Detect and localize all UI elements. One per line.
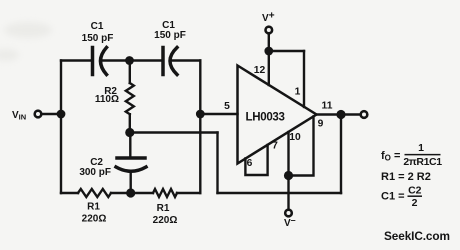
resistor R2 (126, 83, 134, 114)
svg-text:220Ω: 220Ω (82, 214, 107, 225)
svg-text:2: 2 (412, 197, 418, 209)
svg-text:VIN: VIN (12, 110, 26, 122)
node bottom rail C2 (126, 188, 135, 197)
resistor R1 (left) (78, 189, 111, 197)
svg-text:300 pF: 300 pF (79, 167, 111, 178)
resistor R1 (right) (153, 189, 177, 197)
svg-text:R1: R1 (157, 203, 170, 214)
op-amp U1 LH0033 triangle (238, 66, 317, 164)
formula C1 fraction bar (408, 195, 423, 197)
node output (336, 110, 345, 119)
wire VIN to rail (41, 113, 61, 115)
terminal output (361, 111, 368, 118)
wire C2 top lead (129, 133, 131, 159)
wire pin 1 (303, 51, 305, 107)
svg-text:5: 5 (224, 101, 230, 112)
wire feedback output vertical (340, 115, 342, 194)
svg-text:9: 9 (318, 119, 324, 130)
svg-text:R1 = 2 R2: R1 = 2 R2 (381, 171, 431, 183)
wire R2 bottom lead (129, 114, 131, 132)
svg-text:12: 12 (254, 65, 266, 76)
terminal V- (285, 210, 292, 217)
capacitor C1 (left) (93, 48, 107, 75)
svg-text:SeekIC.com: SeekIC.com (384, 229, 450, 243)
wire bottom rail segment 1 (61, 192, 78, 194)
svg-text:LH0033: LH0033 (246, 112, 285, 124)
svg-text:7: 7 (272, 141, 278, 152)
node N1 R2-C2-feedback (125, 128, 134, 137)
node junction dots (57, 47, 346, 198)
node V+ (264, 47, 273, 56)
svg-text:C1 =: C1 = (381, 191, 405, 203)
svg-text:10: 10 (289, 132, 301, 143)
wire left rail (60, 61, 62, 194)
wire V- lead (287, 176, 289, 210)
svg-text:1: 1 (418, 142, 424, 154)
formula fO (381, 142, 442, 168)
terminal circles (35, 27, 368, 217)
wire top rail segment 3 (173, 59, 201, 61)
wire pins 6-7 strap (245, 145, 267, 175)
capacitor C2 (116, 158, 146, 171)
svg-text:C1: C1 (91, 21, 104, 32)
wire right vertical of T network (199, 61, 201, 194)
svg-text:C2: C2 (408, 185, 422, 197)
wire between C1 and node (102, 59, 130, 61)
wire output apex to terminal (317, 113, 361, 115)
svg-text:2πR1C1: 2πR1C1 (403, 156, 442, 168)
wire pin 5 input (200, 113, 237, 115)
node pins 9-10 V- (284, 171, 293, 180)
svg-text:R1: R1 (87, 202, 100, 213)
svg-text:110Ω: 110Ω (95, 94, 119, 105)
wire node to C1 right (130, 59, 163, 61)
wire V+ lead (268, 34, 270, 51)
wire top rail segment 1 (61, 59, 92, 61)
formula fraction bar (405, 154, 441, 156)
wire V+ to pin 1 horizontal (269, 50, 304, 52)
wire pin 12 (268, 51, 270, 85)
svg-text:6: 6 (247, 158, 253, 169)
node pin5 T-join (196, 110, 205, 119)
svg-text:220Ω: 220Ω (153, 215, 178, 226)
wire feedback right vertical (216, 133, 218, 194)
svg-text:150 pF: 150 pF (82, 33, 114, 44)
wire pin 10 (287, 132, 289, 176)
node top C1-C1-R2 (125, 56, 134, 65)
svg-text:fO =: fO = (381, 150, 400, 163)
node VIN tap (57, 110, 66, 119)
svg-text:150 pF: 150 pF (154, 30, 186, 41)
svg-text:11: 11 (322, 101, 333, 112)
wire C2 bottom lead (129, 171, 131, 193)
terminal VIN (35, 111, 42, 118)
wire feedback bottom horizontal (218, 192, 342, 194)
capacitor C1 (right) (163, 48, 177, 75)
wire pin 9 (289, 117, 314, 176)
wire R2 top lead (129, 61, 131, 84)
wire bottom rail segment 2 (111, 192, 153, 194)
wire feedback N1 horizontal (130, 131, 218, 133)
terminal V+ (266, 27, 273, 34)
svg-text:1: 1 (295, 87, 301, 98)
wire bottom rail segment 3 (177, 192, 200, 194)
